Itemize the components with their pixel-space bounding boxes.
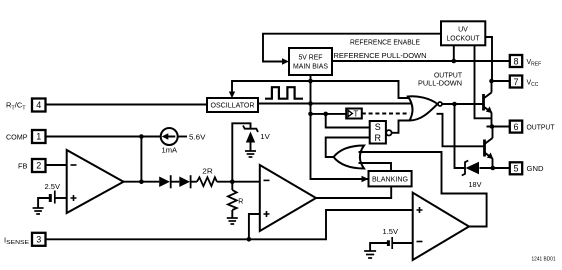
svg-text:OUTPUT: OUTPUT [434, 73, 463, 80]
arrowhead into 5V REF box [282, 58, 289, 65]
wire GND line to pin 5 [480, 167, 510, 169]
wire UV lockout output pull-down [475, 45, 492, 118]
op-amp error amplifier [67, 150, 124, 213]
node NOR output dot [452, 102, 457, 107]
arrowhead into oscillator top [229, 92, 235, 99]
node sync line dot [308, 79, 313, 84]
wire OUTPUT line to pin 6 [487, 126, 510, 128]
svg-text:3: 3 [36, 235, 41, 245]
wire zener 1V tap [232, 123, 250, 181]
pin 7 VCC box [510, 76, 522, 88]
wire NOR lower-right edge to lower transistor base [437, 114, 485, 147]
or-gate (left pointing) [334, 146, 365, 169]
op-amp current sense comparator [260, 165, 316, 231]
node T line branch dot [323, 112, 328, 117]
wire reference pull-down line to pin 8 [332, 60, 510, 62]
svg-text:COMP: COMP [6, 135, 28, 142]
resistor 2R [197, 169, 217, 186]
nor-gate [408, 96, 442, 120]
node COMP line dot [139, 134, 144, 139]
svg-text:LOCKOUT: LOCKOUT [447, 36, 481, 43]
svg-text:OUTPUT: OUTPUT [527, 124, 556, 131]
wire 2R to junction and comparator - input [217, 181, 260, 183]
svg-text:5: 5 [513, 164, 518, 174]
wire latch output to NOR bottom input [392, 121, 410, 133]
wire ISENSE branch to CS comparator + [249, 214, 260, 239]
pin 1 COMP box [32, 130, 46, 143]
svg-text:4: 4 [36, 100, 41, 110]
svg-text:R: R [375, 133, 382, 143]
op-amp bottom comparator [413, 193, 469, 260]
node osc output dot [308, 101, 313, 106]
svg-text:1V: 1V [260, 134, 270, 141]
wire RT/CT to oscillator [46, 104, 208, 106]
pin 2 FB box [32, 159, 46, 172]
arrowhead into blanking [362, 176, 369, 183]
oscillator box [207, 98, 258, 112]
svg-text:T: T [353, 110, 358, 119]
wire error amp output [124, 181, 160, 183]
node reference pull-down dot [452, 59, 457, 64]
wire COMP line [46, 136, 161, 138]
svg-text:1mA: 1mA [162, 147, 178, 154]
wire ISENSE line [46, 210, 413, 239]
svg-text:BLANKING: BLANKING [372, 177, 408, 184]
wire COMP to EA output vertical [140, 137, 142, 182]
wire VCC to pin 7 [492, 80, 510, 82]
blanking box [369, 171, 412, 186]
svg-text:OSCILLATOR: OSCILLATOR [211, 103, 255, 110]
svg-text:1241 BD01: 1241 BD01 [532, 257, 556, 263]
wire OR output to R input [326, 138, 370, 158]
svg-text:6: 6 [513, 122, 518, 132]
svg-text:GND: GND [527, 166, 544, 173]
ground below 1V zener [245, 151, 256, 157]
node GND junction dot [491, 166, 496, 171]
battery 1.5V on comparator - input [370, 229, 413, 250]
node VCC junction dot [489, 79, 494, 84]
svg-text:PULL-DOWN: PULL-DOWN [418, 81, 462, 88]
transistor Q2 lower NPN [485, 127, 494, 169]
svg-text:VCC: VCC [527, 80, 539, 89]
wire NOR output down to 18V zener [455, 104, 465, 168]
svg-text:MAIN BIAS: MAIN BIAS [293, 64, 328, 71]
clock waveform symbol [265, 87, 303, 99]
svg-text:18V: 18V [469, 182, 482, 189]
pin 5 GND box [510, 162, 522, 174]
wire CS comparator output to blanking bottom [316, 186, 391, 198]
battery 2.5V on error amp + input [38, 184, 67, 208]
wire OR lower input to blanking top [359, 163, 392, 171]
svg-text:7: 7 [513, 77, 518, 87]
wire UV lockout to VREF line [453, 45, 455, 61]
wire OR upper input from bottom comparator [359, 152, 487, 227]
svg-text:VREF: VREF [527, 59, 542, 68]
current source 1mA circle [161, 128, 206, 154]
svg-text:UV: UV [458, 27, 468, 34]
latch output bubble [386, 130, 391, 135]
node T line dot [308, 112, 313, 117]
wire 5V REF bias vertical to blanking arrow [311, 75, 369, 179]
node OUTPUT junction dot [490, 124, 495, 129]
pin 4 RT/CT box [32, 99, 46, 112]
ground below 2.5V battery [33, 208, 44, 214]
resistor R vertical [228, 182, 243, 218]
wire oscillator sync line [232, 81, 410, 98]
wire UV lockout to VCC sense [485, 37, 492, 81]
wire diode to 2R [191, 181, 197, 183]
wire between diodes [171, 181, 180, 183]
5V REF MAIN BIAS box [289, 48, 332, 75]
wire NOR output [442, 103, 483, 105]
wire reference enable path [263, 34, 441, 62]
svg-text:2.5V: 2.5V [45, 184, 61, 191]
diode D1 [159, 175, 171, 188]
svg-text:1.5V: 1.5V [383, 229, 399, 236]
node R junction dot [230, 179, 235, 184]
latch S R box [370, 121, 386, 144]
svg-text:5V REF: 5V REF [299, 55, 323, 62]
wire oscillator output to NOR [258, 103, 411, 105]
svg-text:5.6V: 5.6V [189, 134, 206, 141]
one-shot T box [346, 109, 362, 119]
svg-text:1: 1 [36, 132, 41, 142]
svg-text:ISENSE: ISENSE [4, 235, 29, 246]
ground below R [227, 218, 238, 224]
ground below 1.5V battery [364, 251, 376, 258]
transistor Q1 upper NPN [484, 81, 493, 127]
pin 6 OUTPUT box [510, 121, 522, 133]
node ISENSE branch dot [247, 237, 252, 242]
pin 8 VREF box [510, 55, 522, 67]
svg-text:R: R [238, 199, 243, 206]
node EA output dot [139, 179, 144, 184]
wire FB to error amp [46, 164, 67, 166]
pin 3 ISENSE box [32, 233, 46, 246]
svg-text:RT/CT: RT/CT [6, 101, 26, 112]
zener diode 1V [243, 126, 270, 151]
svg-text:REFERENCE PULL-DOWN: REFERENCE PULL-DOWN [334, 53, 427, 60]
svg-text:2R: 2R [202, 169, 213, 176]
UV lockout box [441, 21, 485, 45]
svg-text:8: 8 [513, 56, 518, 66]
wire dashed T to NOR [362, 113, 410, 115]
diode D2 [179, 175, 190, 188]
zener diode 18V [462, 161, 482, 190]
svg-text:FB: FB [18, 163, 28, 170]
svg-text:REFERENCE ENABLE: REFERENCE ENABLE [350, 39, 420, 46]
svg-text:2: 2 [36, 161, 41, 171]
wire branch to S input [326, 114, 370, 128]
wire T input line [311, 113, 347, 115]
svg-text:S: S [375, 122, 381, 132]
